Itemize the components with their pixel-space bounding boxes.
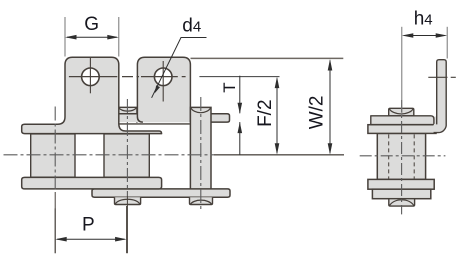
bent attachment plate (L shape with bend radius, end view): [371, 60, 446, 133]
hole 1 vertical crosshair: [89, 58, 91, 93]
end view: outer bottom plate (edge): [372, 189, 430, 199]
pin 3 rivet head (bottom): [190, 197, 213, 204]
end view: roller: [377, 133, 425, 179]
W/2 extension line (plate top): [191, 57, 344, 59]
h4 extension lines: [401, 27, 403, 116]
svg-text:F/2: F/2: [255, 99, 276, 126]
outer link bottom bar (pin2-pin3): [92, 189, 230, 197]
pin 3 centerline: [200, 97, 202, 212]
svg-text:P: P: [82, 215, 95, 236]
hole 2 vertical crosshair: [162, 61, 164, 102]
chain centerline (horizontal, solid extension to F/2 and W/2 arrows): [214, 154, 344, 156]
roller 1: [31, 134, 75, 177]
hidden bushing lines: [388, 134, 390, 178]
pin 1 centerline (dash-dot): [54, 107, 56, 193]
end view centerline horizontal: [360, 155, 446, 157]
attachment hole centerline (solid extension to F/2 arrow): [199, 76, 279, 78]
hole in plate 1: [82, 68, 100, 86]
end view centerline vertical: [401, 100, 403, 214]
svg-text:G: G: [84, 14, 99, 35]
pin 2 centerline (dash-dot): [126, 99, 128, 196]
inner link top bar with attachment plate 1 (side view): [22, 57, 162, 133]
svg-text:d4: d4: [182, 15, 201, 36]
G extension lines: [64, 17, 66, 57]
attachment hole centerline (end view): [428, 76, 456, 78]
svg-text:W/2: W/2: [307, 96, 328, 130]
pin 2 rivet head (bottom): [115, 197, 141, 204]
d4 leader line: [152, 38, 207, 98]
bar edge line visible in the gap between plates: [119, 123, 190, 125]
end view: pin top end: [389, 108, 414, 116]
F/2 dimension line: [276, 79, 278, 154]
roller 2: [104, 134, 149, 177]
pin 2 centerline (solid lower part): [126, 196, 128, 253]
pin 3 (protruding pin at cut end): [190, 107, 211, 189]
pin 2 bushing end visible between attachment plates: [118, 107, 137, 123]
hole in plate 2: [154, 68, 172, 86]
W/2 dimension line: [329, 61, 331, 154]
pin 1 centerline (solid lower part): [54, 192, 56, 253]
svg-text:T: T: [220, 82, 239, 92]
end view: inner top plate (edge): [368, 125, 436, 134]
end view: inner bottom plate (edge): [368, 179, 434, 189]
svg-text:h4: h4: [414, 9, 433, 30]
T dimension: [239, 76, 241, 114]
outer link top bar (pin2-pin3): [92, 114, 230, 122]
chain centerline (horizontal, dash-dot part): [4, 154, 215, 156]
h4 dimension line: [404, 35, 445, 37]
attachment hole centerline (dash-dot through both holes): [69, 76, 186, 78]
attachment plate 2 (bent outer plate, side view): [137, 57, 190, 122]
G dimension line: [67, 36, 117, 38]
P dimension: [54, 208, 56, 253]
inner link bottom plate bar: [22, 177, 162, 189]
end view: pin bottom end (rivet): [389, 199, 415, 206]
